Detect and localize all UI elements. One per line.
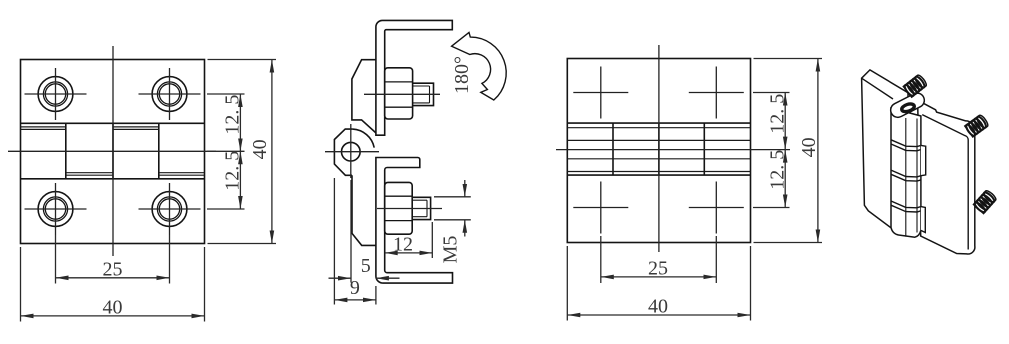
ext line hole left bbox=[55, 235, 57, 284]
stud B (right top) bbox=[965, 114, 990, 137]
barrel top cap bbox=[888, 91, 927, 120]
pin circle bbox=[342, 142, 361, 161]
dims right view bbox=[567, 59, 822, 321]
ext line hole bottom bbox=[207, 208, 245, 210]
svg-text:12. 5: 12. 5 bbox=[222, 95, 244, 135]
cross centerline v bottom-right bbox=[715, 182, 717, 234]
cross centerline h bottom-right bbox=[689, 207, 744, 209]
barrel body bbox=[891, 108, 921, 237]
dim line 25 right view bbox=[601, 276, 717, 278]
ext line leaf face bbox=[375, 286, 377, 305]
ext line pin center bbox=[350, 180, 352, 283]
dim line 12.5 top right view bbox=[784, 93, 786, 150]
joint band 2 bbox=[891, 170, 921, 177]
plate outline bbox=[21, 60, 205, 244]
svg-text:25: 25 bbox=[103, 259, 123, 281]
pin centerline v bbox=[350, 124, 352, 178]
bottom stud bbox=[412, 197, 430, 219]
dim line 25 bbox=[56, 277, 170, 279]
top hex nut bbox=[385, 68, 413, 119]
hole centerline v top-right bbox=[169, 68, 171, 120]
ext line plate left right view bbox=[566, 246, 568, 321]
stud A (top-left) bbox=[903, 74, 928, 97]
ext line stud end bbox=[431, 222, 433, 258]
ext line plate right bbox=[204, 247, 206, 322]
barrel facet lines bbox=[905, 118, 907, 237]
svg-text:40: 40 bbox=[249, 139, 271, 159]
barrel top hole bbox=[901, 103, 915, 113]
knuckle band top fold line bbox=[21, 122, 205, 124]
side view centerlines bbox=[325, 94, 442, 208]
dim line 9 bbox=[334, 299, 376, 301]
ext line plate left bbox=[20, 247, 22, 322]
ext line stud top bbox=[434, 196, 471, 198]
hole centerline v bottom-left bbox=[55, 183, 57, 235]
dim arrow M5 bottom bbox=[464, 220, 466, 237]
stud C (right bottom) bbox=[973, 189, 997, 213]
dim line 12.5 bottom bbox=[239, 151, 241, 209]
ext line cross top bbox=[753, 92, 790, 94]
holes bbox=[38, 77, 187, 227]
side view dims bbox=[329, 178, 471, 305]
svg-text:25: 25 bbox=[648, 258, 668, 280]
ext line plate top right view bbox=[754, 58, 823, 60]
dim line 12.5 bottom right view bbox=[784, 150, 786, 208]
plate vertical centerline bbox=[112, 46, 114, 256]
right plate bbox=[918, 100, 975, 254]
dim line 12.5 top bbox=[239, 94, 241, 151]
ext line center bbox=[207, 150, 245, 152]
ext line hole right bbox=[169, 235, 171, 284]
dim line 40 vertical bbox=[271, 60, 273, 244]
dim line 40 horizontal bbox=[21, 315, 205, 317]
top leaf L-plate bbox=[376, 20, 452, 135]
ext line plate top bbox=[208, 59, 277, 61]
bottom hex nut bbox=[385, 182, 413, 234]
svg-text:180°: 180° bbox=[451, 56, 473, 94]
bottom weld plate bbox=[352, 175, 376, 245]
hole centerline v bottom-right bbox=[169, 183, 171, 235]
notch segment 2 bbox=[921, 145, 926, 175]
knuckle gap lines cell2 bbox=[66, 172, 113, 174]
ext line plate bottom bbox=[208, 243, 277, 245]
ext line cross right bbox=[715, 236, 717, 283]
knuckle outline bbox=[334, 129, 352, 175]
right plate top face lower edge + inner band edge bbox=[922, 115, 968, 250]
cross centerline h top-right bbox=[689, 92, 744, 94]
dim line 40 vertical right view bbox=[817, 59, 819, 243]
joint band 1 bbox=[891, 140, 921, 147]
knuckle gap lines cell1 bbox=[21, 126, 66, 128]
bottom bolt centerline bbox=[377, 208, 442, 210]
dim line 40 horizontal right view bbox=[567, 314, 750, 316]
band verticals bbox=[612, 123, 614, 175]
back view vertical centerline bbox=[658, 45, 660, 252]
dim line 12 bbox=[385, 252, 433, 254]
dim arrow 5 left bbox=[329, 277, 352, 279]
cross centerline h bottom-left bbox=[573, 207, 628, 209]
ext line hole top bbox=[207, 93, 245, 95]
ext line cross bottom bbox=[753, 207, 790, 209]
barrel band outer lines bbox=[567, 122, 750, 124]
joint band 3 bbox=[891, 201, 921, 208]
bottom leaf L-plate bbox=[376, 158, 453, 284]
knuckle divider center bbox=[112, 123, 114, 179]
hole centerline v top-left bbox=[55, 68, 57, 120]
hole centerline h bottom-right bbox=[139, 208, 201, 210]
svg-text:12: 12 bbox=[393, 234, 413, 256]
svg-text:5: 5 bbox=[361, 255, 371, 277]
notch segment 4 bbox=[921, 207, 925, 233]
svg-text:12. 5: 12. 5 bbox=[767, 150, 789, 190]
hole centerline h bottom-left bbox=[25, 208, 87, 210]
svg-text:40: 40 bbox=[798, 137, 820, 157]
svg-text:12. 5: 12. 5 bbox=[767, 94, 789, 134]
left plate bbox=[862, 70, 908, 228]
hole centerline h top-left bbox=[25, 93, 87, 95]
ext line cross left bbox=[600, 236, 602, 283]
back view horizontal centerline bbox=[556, 149, 790, 151]
pin centerline h bbox=[325, 151, 379, 153]
plate horizontal centerline bbox=[8, 150, 216, 152]
knuckle divider 3 bbox=[158, 123, 160, 179]
ext line plate bottom right view bbox=[754, 242, 823, 244]
180 rotation arrow bbox=[452, 32, 507, 100]
left plate top face lower edge bbox=[862, 78, 893, 99]
knuckle gap lines cell3 bbox=[113, 126, 159, 128]
cross centerline v bottom-left bbox=[600, 182, 602, 234]
dim arrow 5 right bbox=[376, 277, 400, 279]
svg-text:12. 5: 12. 5 bbox=[222, 151, 244, 191]
cross centerline v top-right bbox=[715, 67, 717, 119]
knuckle band bottom fold line bbox=[21, 178, 205, 180]
ext line knuckle face bbox=[333, 178, 335, 305]
svg-text:M5: M5 bbox=[440, 236, 462, 264]
cross centerlines bbox=[573, 67, 744, 234]
knuckle divider 1 bbox=[65, 123, 67, 179]
centerlines bbox=[8, 46, 216, 256]
top weld plate bbox=[352, 60, 376, 133]
top bolt centerline bbox=[364, 93, 440, 95]
top stud bbox=[413, 83, 434, 105]
hole centerline h top-right bbox=[139, 93, 201, 95]
svg-text:9: 9 bbox=[350, 277, 360, 299]
ext line plate right right view bbox=[750, 246, 752, 321]
dimensions left view bbox=[21, 60, 277, 322]
plate outline bbox=[567, 59, 750, 243]
svg-text:40: 40 bbox=[648, 296, 668, 318]
knuckle gap lines cell4 bbox=[159, 172, 205, 174]
cross centerline v top-left bbox=[600, 67, 602, 119]
ext line stud bottom bbox=[434, 219, 471, 221]
dim arrow M5 top bbox=[464, 180, 466, 197]
cross centerline h top-left bbox=[573, 92, 628, 94]
svg-text:40: 40 bbox=[103, 297, 123, 319]
